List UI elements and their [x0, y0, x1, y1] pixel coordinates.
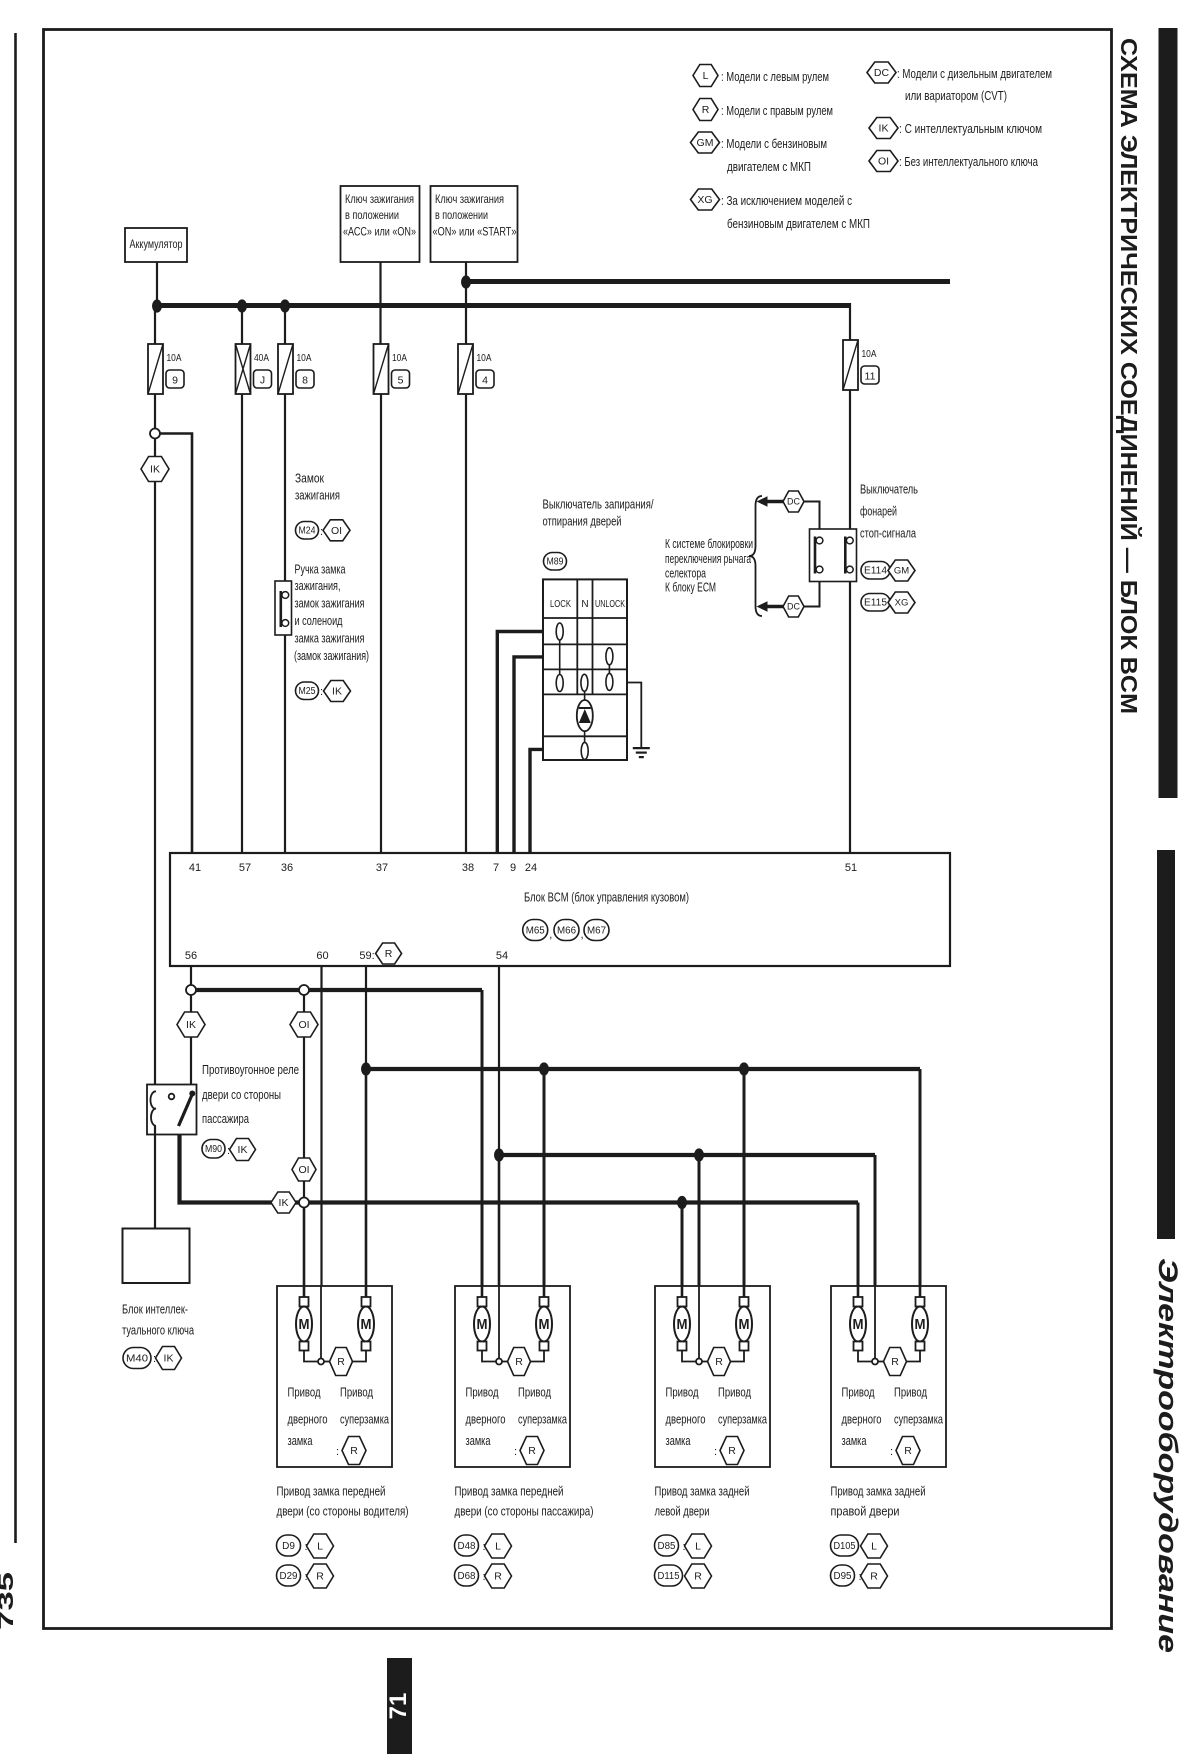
svg-text:M: M	[539, 1316, 550, 1333]
M89 bottom contact	[581, 742, 588, 759]
svg-text:переключения рычага: переключения рычага	[665, 552, 751, 566]
fuse 9 10A	[148, 344, 184, 394]
svg-text:«ON» или «START»: «ON» или «START»	[433, 225, 517, 239]
front door lock actuator driver side: door lock motor	[296, 1286, 312, 1351]
svg-text:M89: M89	[547, 557, 564, 568]
svg-text:XG: XG	[697, 194, 712, 206]
front door lock actuator passenger side: R marker	[485, 1564, 512, 1588]
svg-text:D48: D48	[458, 1541, 476, 1552]
svg-text:D115: D115	[658, 1571, 680, 1582]
relay fixed contact	[169, 1094, 175, 1100]
svg-text:IK: IK	[279, 1197, 289, 1209]
svg-text:59:: 59:	[359, 950, 374, 962]
wire pin 59 down to driver box right motor	[365, 1069, 368, 1286]
connector id M40	[123, 1348, 151, 1369]
svg-text:L: L	[317, 1541, 323, 1553]
svg-text:GM: GM	[697, 137, 714, 149]
svg-text:Аккумулятор: Аккумулятор	[130, 237, 183, 251]
connector id M25	[296, 682, 319, 700]
svg-text:D105: D105	[834, 1541, 856, 1552]
right black bar top	[1159, 28, 1178, 798]
relay switch arm	[179, 1093, 194, 1127]
svg-text:R: R	[728, 1445, 736, 1457]
fuse 11 10A	[843, 340, 879, 390]
IK marker for M40	[156, 1347, 182, 1370]
svg-text:IK: IK	[186, 1019, 196, 1031]
front door lock actuator driver side: R marker	[307, 1564, 334, 1588]
svg-text:: Без интеллектуального ключа: : Без интеллектуального ключа	[899, 154, 1039, 169]
fusible link J 40A	[236, 344, 272, 394]
front door lock actuator driver side: connector id D9	[277, 1535, 301, 1556]
svg-text:D9: D9	[282, 1541, 295, 1552]
wire bus to fuse J	[241, 306, 243, 344]
front door lock actuator driver side: super lock motor	[358, 1286, 374, 1351]
svg-text:E115: E115	[864, 598, 887, 609]
svg-text:: Модели с бензиновым: : Модели с бензиновым	[721, 136, 827, 151]
rear left door lock actuator: internal wiring	[682, 1350, 696, 1362]
battery supply bus (lower)	[154, 303, 850, 308]
svg-text:9: 9	[172, 375, 178, 387]
GM marker for E114	[888, 560, 915, 581]
svg-text:замок зажигания: замок зажигания	[295, 597, 365, 611]
svg-text:дверного: дверного	[466, 1412, 506, 1427]
svg-text:Ключ зажигания: Ключ зажигания	[435, 192, 504, 206]
svg-text:R: R	[870, 1571, 878, 1583]
OI branch wire down	[303, 995, 305, 1197]
supply line pin 56	[191, 988, 482, 992]
svg-text:в положении: в положении	[435, 208, 488, 222]
svg-text:в положении: в положении	[345, 208, 399, 222]
svg-text:суперзамка: суперзамка	[718, 1412, 768, 1427]
svg-text:суперзамка: суперзамка	[894, 1412, 944, 1427]
svg-text:СХЕМА ЭЛЕКТРИЧЕСКИХ СОЕДИНЕНИЙ: СХЕМА ЭЛЕКТРИЧЕСКИХ СОЕДИНЕНИЙ — БЛОК BC…	[1116, 38, 1143, 714]
svg-text:селектора: селектора	[665, 567, 706, 581]
svg-text:9: 9	[510, 862, 516, 874]
svg-text::: :	[890, 1446, 893, 1458]
front door lock actuator passenger side: door lock motor	[474, 1286, 490, 1351]
svg-text:10A: 10A	[167, 352, 182, 364]
IK marker for M25	[324, 681, 351, 702]
wire relay line down to rear right box	[857, 1203, 860, 1287]
wire to rear left box right motor	[743, 1069, 746, 1286]
svg-text:дверного: дверного	[842, 1412, 882, 1427]
svg-text:: Модели с правым рулем: : Модели с правым рулем	[721, 103, 833, 118]
junction ON/START bus	[461, 275, 471, 288]
wire junction down to driver box left motor	[303, 1207, 306, 1286]
svg-text:R: R	[337, 1356, 345, 1368]
ignition key ACC/ON box	[341, 186, 420, 262]
svg-text:M: M	[677, 1316, 688, 1333]
wire ACC key to fuse 5	[379, 262, 381, 344]
front door lock actuator passenger side: L marker	[485, 1534, 512, 1558]
svg-text:7: 7	[493, 862, 499, 874]
svg-text:37: 37	[376, 862, 388, 874]
svg-text:R: R	[515, 1356, 523, 1368]
wire bus to fuse 11	[849, 303, 851, 340]
svg-text:двери (со стороны водителя): двери (со стороны водителя)	[277, 1504, 409, 1519]
rear right door lock actuator	[831, 1286, 946, 1467]
wire fuse 8 to BCM pin 36	[284, 394, 286, 853]
svg-text:суперзамка: суперзамка	[340, 1412, 390, 1427]
svg-text:Привод: Привод	[466, 1385, 499, 1400]
svg-text:DC: DC	[787, 497, 800, 507]
svg-text:M67: M67	[587, 925, 606, 936]
rear left door lock actuator: connector id D85	[655, 1535, 679, 1556]
bottom tab 17	[387, 1658, 412, 1754]
front door lock actuator passenger side: internal wiring	[482, 1350, 496, 1362]
front door lock actuator driver side	[277, 1286, 392, 1467]
svg-text:: Модели с левым рулем: : Модели с левым рулем	[721, 69, 829, 84]
wire battery to bus	[156, 262, 158, 306]
wire DC-top to stop lamp switch	[804, 502, 820, 537]
svg-text:: С интеллектуальным ключом: : С интеллектуальным ключом	[899, 121, 1042, 136]
svg-text:Привод замка передней: Привод замка передней	[455, 1484, 564, 1499]
svg-text:LOCK: LOCK	[550, 599, 571, 610]
junction pin59 line / front passenger box	[539, 1062, 549, 1075]
wire relay coil to intelligent key unit	[154, 1126, 156, 1228]
wire to rear left box middle	[698, 1155, 701, 1286]
legend symbol GM	[691, 132, 720, 153]
wire pin 54 down to front passenger box middle	[498, 1155, 501, 1286]
rear left door lock actuator	[655, 1286, 770, 1467]
junction pin54 line start	[494, 1148, 504, 1161]
svg-text:M65: M65	[526, 925, 545, 936]
svg-text:10A: 10A	[297, 352, 312, 364]
svg-text:R: R	[715, 1356, 723, 1368]
svg-text:56: 56	[185, 950, 197, 962]
svg-text:левой двери: левой двери	[655, 1504, 710, 1519]
svg-text:R: R	[385, 948, 393, 960]
svg-text:R: R	[891, 1356, 899, 1368]
front door lock actuator driver side: connector id D29	[277, 1565, 301, 1586]
svg-text:Замок: Замок	[295, 472, 324, 486]
svg-text:DC: DC	[874, 67, 890, 79]
svg-text:71: 71	[385, 1693, 412, 1720]
svg-text:E114: E114	[864, 566, 887, 577]
rear left door lock actuator: super lock motor	[736, 1286, 752, 1351]
rear left door lock actuator: R marker	[685, 1564, 712, 1588]
IK variant marker on fuse 9 wire	[141, 457, 169, 482]
svg-text:OI: OI	[298, 1164, 309, 1176]
connector id M90	[202, 1140, 225, 1159]
wire fuse J to BCM pin 57	[241, 394, 243, 853]
rear right door lock actuator: connector id D105	[831, 1535, 859, 1556]
svg-text:: За исключением моделей с: : За исключением моделей с	[721, 193, 852, 208]
junction bus/fuse 8	[280, 299, 290, 312]
super lock line pin 59	[366, 1067, 920, 1071]
relay coil	[150, 1091, 156, 1125]
svg-text:R: R	[528, 1445, 536, 1457]
wire to rear left box left motor	[681, 1203, 684, 1287]
svg-text:и соленоид: и соленоид	[295, 614, 344, 628]
svg-text:: Модели с дизельным двигателе: : Модели с дизельным двигателем	[897, 66, 1052, 81]
R marker at BCM pin 59	[376, 943, 402, 964]
rear left door lock actuator: L marker	[685, 1534, 712, 1558]
svg-text:XG: XG	[895, 598, 909, 609]
rear left door lock actuator: door lock motor	[674, 1286, 690, 1351]
svg-text:замка: замка	[666, 1433, 692, 1448]
svg-text:IK: IK	[879, 123, 889, 135]
svg-text:R: R	[494, 1571, 502, 1583]
IK marker on relay output line	[271, 1192, 296, 1213]
svg-text:M: M	[739, 1316, 750, 1333]
svg-text:R: R	[350, 1445, 358, 1457]
svg-text:GM: GM	[894, 566, 909, 577]
IK marker below pin 56	[177, 1012, 205, 1037]
junction pin54 line / rear left box	[694, 1148, 704, 1161]
svg-text:Выключатель: Выключатель	[860, 483, 918, 497]
svg-text:M: M	[299, 1316, 310, 1333]
front door lock actuator passenger side: connector id D48	[455, 1535, 479, 1556]
M89 ground wire	[627, 683, 641, 749]
anti-theft relay box M90	[147, 1085, 197, 1135]
svg-text:замка: замка	[288, 1433, 314, 1448]
svg-text:Блок BCM (блок управления кузо: Блок BCM (блок управления кузовом)	[524, 890, 689, 905]
svg-text:К блоку ЕСМ: К блоку ЕСМ	[665, 581, 716, 595]
front door lock actuator passenger side: super lock motor	[536, 1286, 552, 1351]
svg-text:UNLOCK: UNLOCK	[595, 599, 625, 610]
wire fuse 5 to BCM pin 37	[380, 394, 382, 853]
svg-text:60: 60	[316, 950, 328, 962]
junction battery/bus	[152, 299, 162, 312]
svg-text:M90: M90	[205, 1144, 222, 1155]
DC marker top	[783, 491, 804, 512]
ignition lock switch symbol M24/M25	[275, 581, 292, 635]
svg-text::: :	[336, 1446, 339, 1458]
M89 N contact	[581, 674, 588, 691]
svg-text:Привод: Привод	[718, 1385, 751, 1400]
wire M89 diode to BCM pin 24	[530, 749, 543, 853]
svg-text:Ключ зажигания: Ключ зажигания	[345, 192, 414, 206]
svg-text:или вариатором (CVT): или вариатором (CVT)	[905, 88, 1007, 103]
svg-text:L: L	[703, 70, 709, 82]
svg-text:D29: D29	[280, 1571, 298, 1582]
svg-text:,: ,	[581, 929, 584, 941]
svg-text:57: 57	[239, 862, 251, 874]
M89 switch table	[543, 579, 627, 760]
svg-text::: :	[514, 1446, 517, 1458]
svg-text:L: L	[871, 1541, 877, 1553]
connector id M24	[296, 522, 319, 540]
M89 UNLOCK contact	[606, 648, 613, 665]
svg-text:DC: DC	[787, 602, 800, 612]
front door lock actuator passenger side: connector id D68	[455, 1565, 479, 1586]
svg-text:D85: D85	[658, 1541, 676, 1552]
svg-text:51: 51	[845, 862, 857, 874]
DC arrow top	[766, 500, 784, 503]
svg-text:Привод: Привод	[894, 1385, 927, 1400]
svg-text:8: 8	[302, 375, 308, 387]
svg-text:Привод замка передней: Привод замка передней	[277, 1484, 386, 1499]
svg-text:J: J	[260, 375, 265, 387]
svg-text:Выключатель запирания/: Выключатель запирания/	[543, 498, 654, 512]
svg-text:M24: M24	[299, 526, 316, 537]
junction bus/fuse J	[237, 299, 247, 312]
connector id M66	[554, 920, 579, 941]
svg-text:пассажира: пассажира	[202, 1112, 249, 1126]
wire bus to fuse 8	[284, 306, 286, 344]
OI marker on branch (bottom)	[292, 1158, 316, 1181]
svg-text:OI: OI	[878, 156, 889, 168]
outer left page rule	[14, 33, 17, 1543]
DC marker bottom	[783, 596, 804, 617]
svg-text:24: 24	[525, 862, 537, 874]
wire pin54-line down to rear right box	[874, 1155, 877, 1286]
front door lock actuator passenger side: R marker in box	[508, 1348, 531, 1376]
svg-text:зажигания: зажигания	[295, 489, 340, 503]
svg-text:10A: 10A	[862, 348, 877, 360]
wire BCM pin 54 down	[498, 966, 500, 1155]
svg-text:M: M	[853, 1316, 864, 1333]
M89 LOCK contact	[556, 623, 563, 640]
svg-text:M25: M25	[299, 686, 316, 697]
svg-text:R: R	[694, 1571, 702, 1583]
lock line pin 54	[499, 1153, 875, 1157]
junction relay line / rear left box	[677, 1196, 687, 1209]
svg-text:R: R	[904, 1445, 912, 1457]
wire fuse 11 through stop lamp switch to BCM pin 51	[849, 390, 851, 853]
svg-text:M: M	[915, 1316, 926, 1333]
svg-text:Привод: Привод	[518, 1385, 551, 1400]
connector id M67	[584, 920, 609, 941]
svg-text:D95: D95	[834, 1571, 852, 1582]
svg-text:стоп-сигнала: стоп-сигнала	[860, 527, 916, 541]
front door lock actuator passenger side	[455, 1286, 570, 1467]
junction pin59 line / rear left box	[739, 1062, 749, 1075]
svg-text:двигателем с МКП: двигателем с МКП	[727, 159, 811, 174]
svg-text:суперзамка: суперзамка	[518, 1412, 568, 1427]
wire pin59-line down to rear right box	[919, 1069, 922, 1286]
svg-text:40A: 40A	[254, 352, 269, 364]
svg-text:замка: замка	[842, 1433, 868, 1448]
wire M89 LOCK to BCM pin 7	[497, 632, 543, 854]
connector id M89	[544, 553, 567, 571]
svg-text:К системе блокировки: К системе блокировки	[665, 537, 753, 551]
svg-text:R: R	[316, 1571, 324, 1583]
svg-text:двери со стороны: двери со стороны	[202, 1088, 281, 1102]
svg-text:L: L	[495, 1541, 501, 1553]
stop lamp switch right element	[845, 537, 853, 574]
svg-text:Блок интеллек-: Блок интеллек-	[122, 1303, 188, 1317]
battery box Аккумулятор	[125, 228, 187, 262]
svg-text:54: 54	[496, 950, 508, 962]
svg-text:M: M	[361, 1316, 372, 1333]
junction pin59 line start	[361, 1062, 371, 1075]
right black bar bottom	[1157, 850, 1175, 1239]
svg-text::: :	[320, 686, 323, 698]
front door lock actuator driver side: internal wiring	[304, 1350, 318, 1362]
svg-text:Привод: Привод	[340, 1385, 373, 1400]
svg-text:R: R	[702, 104, 710, 116]
wire pin56-line down to front passenger lock box	[481, 990, 484, 1286]
svg-text:10A: 10A	[392, 352, 407, 364]
svg-text:замка: замка	[466, 1433, 492, 1448]
svg-text:10A: 10A	[477, 352, 492, 364]
svg-text:IK: IK	[150, 464, 160, 476]
ground at M89	[633, 748, 650, 757]
IK marker for M90	[230, 1139, 256, 1161]
svg-text:OI: OI	[298, 1019, 309, 1031]
wire M89 UNLOCK to BCM pin 9	[514, 657, 543, 853]
connector junction OI branch	[299, 985, 309, 995]
wire BCM pin 56 down	[190, 966, 192, 985]
svg-text:туального ключа: туального ключа	[122, 1324, 194, 1338]
svg-text:735: 735	[0, 1571, 18, 1630]
curly brace	[749, 496, 762, 616]
wire ON/START key to fuse 4	[465, 262, 467, 344]
wire fuse 9 down	[154, 394, 156, 428]
svg-text::: :	[714, 1446, 717, 1458]
svg-text:OI: OI	[331, 525, 342, 537]
wire fuse 4 to BCM pin 38	[465, 394, 467, 853]
svg-text:N: N	[581, 599, 588, 610]
svg-text:Привод: Привод	[288, 1385, 321, 1400]
svg-text:дверного: дверного	[288, 1412, 328, 1427]
svg-text:IK: IK	[164, 1353, 174, 1365]
svg-text::: :	[320, 526, 323, 538]
ignition key ON/START box	[431, 186, 518, 262]
svg-text:D68: D68	[458, 1571, 476, 1582]
rear right door lock actuator: connector id D95	[831, 1565, 855, 1586]
legend symbol IK	[869, 118, 898, 139]
svg-text:M66: M66	[557, 925, 576, 936]
legend symbol R	[693, 99, 718, 121]
svg-text:«АСС» или «ON»: «АСС» или «ON»	[343, 225, 416, 239]
rear right door lock actuator: super lock motor	[912, 1286, 928, 1351]
wire BCM pin 59 down	[365, 966, 367, 1069]
svg-text:(замок зажигания): (замок зажигания)	[294, 649, 369, 663]
fuse 5 10A	[374, 344, 410, 394]
connector junction relay line / OI branch	[299, 1198, 309, 1208]
svg-text:L: L	[695, 1541, 701, 1553]
svg-text:5: 5	[398, 375, 404, 387]
rear right door lock actuator: L marker	[861, 1534, 888, 1558]
svg-text:бензиновым двигателем с МКП: бензиновым двигателем с МКП	[727, 216, 870, 231]
legend symbol OI	[869, 151, 898, 172]
svg-text:M: M	[477, 1316, 488, 1333]
wire pin 56 to relay switch	[190, 995, 192, 1092]
svg-text:36: 36	[281, 862, 293, 874]
OI marker on branch (top)	[290, 1012, 318, 1037]
rear right door lock actuator: internal wiring	[858, 1350, 872, 1362]
svg-text:38: 38	[462, 862, 474, 874]
svg-text:,: ,	[549, 929, 552, 941]
svg-text:отпирания дверей: отпирания дверей	[543, 515, 622, 529]
svg-text:зажигания,: зажигания,	[295, 579, 341, 593]
rear left door lock actuator: R marker in box	[708, 1348, 731, 1376]
wire branch to BCM pin 41	[160, 434, 192, 854]
wire to front passenger box right motor	[543, 1069, 546, 1286]
rear right door lock actuator: R marker	[861, 1564, 888, 1588]
legend symbol L	[693, 65, 718, 87]
connector junction pin 56	[186, 985, 196, 995]
svg-text:фонарей: фонарей	[860, 505, 897, 519]
svg-text:правой двери: правой двери	[831, 1504, 900, 1519]
fuse 4 10A	[458, 344, 494, 394]
stop lamp switch left element	[815, 537, 823, 574]
OI marker for M24	[323, 520, 350, 541]
svg-text:Привод замка задней: Привод замка задней	[831, 1484, 926, 1499]
connector id E115	[861, 594, 890, 612]
connector junction on fuse 9 wire	[150, 429, 160, 439]
rear right door lock actuator: R marker in box	[884, 1348, 907, 1376]
svg-text:Привод замка задней: Привод замка задней	[655, 1484, 750, 1499]
front door lock actuator driver side: R marker in box	[330, 1348, 353, 1376]
M89 diode	[584, 691, 586, 742]
legend symbol XG	[691, 189, 720, 210]
wire BCM pin 60 to driver lock box	[320, 966, 322, 1286]
svg-text:IK: IK	[238, 1144, 248, 1156]
